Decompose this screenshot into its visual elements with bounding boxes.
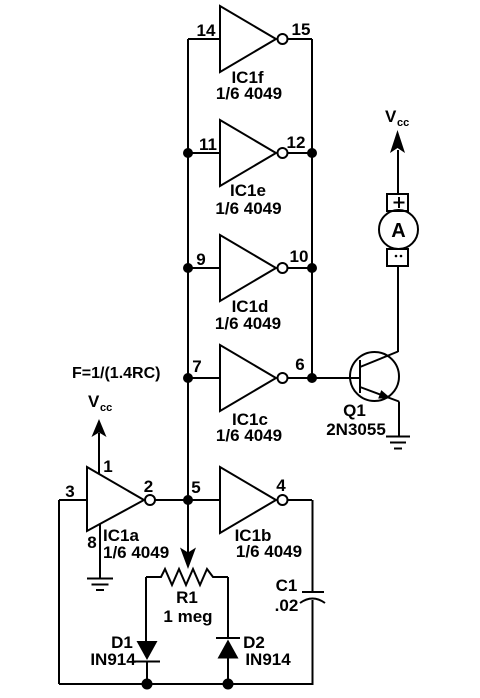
svg-text:2: 2 <box>144 477 153 496</box>
potentiometer R1 wiper arrow <box>180 548 196 570</box>
svg-text:1/6 4049: 1/6 4049 <box>215 199 281 218</box>
transistor Q1 <box>312 266 410 449</box>
ammeter bottom terminal box <box>387 249 408 266</box>
inverter IC1a <box>59 392 188 590</box>
svg-text:3: 3 <box>65 482 74 501</box>
junction: input bus node (y=268) <box>183 263 193 273</box>
junction: output bus node (y=268) <box>307 263 317 273</box>
wire: pin 8 to ground <box>99 524 101 578</box>
ammeter top terminal box <box>387 194 408 211</box>
svg-text:2N3055: 2N3055 <box>326 420 386 439</box>
svg-text:15: 15 <box>292 20 311 39</box>
wire: feedback (bottom rail to IC1a pin 3) <box>58 500 60 684</box>
wire: IC1a input (pin 3) <box>59 499 87 501</box>
Q1 collector <box>360 352 398 368</box>
svg-text:1/6 4049: 1/6 4049 <box>103 543 169 562</box>
wire: IC1c input <box>188 377 220 379</box>
svg-text:R1: R1 <box>176 588 198 607</box>
svg-text:F=1/(1.4RC): F=1/(1.4RC) <box>72 365 160 382</box>
svg-text:8: 8 <box>87 533 96 552</box>
svg-text:1/6 4049: 1/6 4049 <box>216 426 282 445</box>
inverter IC1d triangle <box>220 235 276 301</box>
wire: emitter to ground <box>398 402 400 437</box>
IC1c output bubble <box>278 373 288 383</box>
svg-text:14: 14 <box>197 21 216 40</box>
inverter IC1e <box>188 120 312 218</box>
inverter IC1b triangle <box>220 467 276 533</box>
Q1 base bar <box>359 360 361 393</box>
svg-text:V: V <box>88 392 100 411</box>
IC1d output bubble <box>278 263 288 273</box>
IC1e output bubble <box>278 148 288 158</box>
svg-text:cc: cc <box>100 402 112 414</box>
svg-text:9: 9 <box>196 250 205 269</box>
ammeter body circle <box>379 210 418 249</box>
wire: IC1c output <box>288 377 313 379</box>
Q1 emitter arrow <box>378 390 391 398</box>
svg-text:4: 4 <box>276 476 286 495</box>
svg-text:6: 6 <box>295 355 304 374</box>
resistor R1 <box>146 569 228 626</box>
capacitor C1 <box>275 576 325 615</box>
wire: collector to ammeter <box>397 266 399 352</box>
svg-text:7: 7 <box>192 357 201 376</box>
svg-text:1/6 4049: 1/6 4049 <box>215 314 281 333</box>
svg-text:12: 12 <box>287 133 306 152</box>
inverter IC1c <box>188 345 312 445</box>
+ mark <box>394 202 405 204</box>
svg-text:IC1e: IC1e <box>230 181 266 200</box>
wire: bottom rail <box>59 683 314 685</box>
wire: D2 anode to rail <box>227 658 229 684</box>
wire: IC1f input <box>188 38 220 40</box>
svg-text:V: V <box>385 107 397 126</box>
junction: D1 / bottom rail <box>142 679 153 690</box>
IC1a output bubble <box>145 495 155 505</box>
diode D1 <box>90 633 160 684</box>
diode D2 <box>216 633 291 684</box>
junction: input bus node (y=378) <box>183 373 193 383</box>
wire: IC1e input <box>188 152 220 154</box>
wire: input bus (IC1a output to all gate inputs) <box>187 39 189 553</box>
svg-text:C1: C1 <box>276 576 298 595</box>
svg-text:IN914: IN914 <box>90 650 136 669</box>
wire: D1 cathode to rail <box>146 662 148 684</box>
svg-text:1/6 4049: 1/6 4049 <box>216 84 282 103</box>
svg-text:.02: .02 <box>275 596 299 615</box>
ammeter A <box>379 194 418 266</box>
svg-text:10: 10 <box>290 247 309 266</box>
junction: input bus node (y=153) <box>183 148 193 158</box>
Q1 body circle <box>350 352 399 401</box>
svg-text:1/6 4049: 1/6 4049 <box>236 542 302 561</box>
svg-text:1 meg: 1 meg <box>163 607 212 626</box>
IC1f output bubble <box>278 34 288 44</box>
ground (Q1 emitter) <box>386 436 410 438</box>
wire: R1 right end down to D2 <box>227 577 229 638</box>
wire: IC1a output (pin 2) <box>155 499 188 501</box>
IC1b output bubble <box>278 495 288 505</box>
inverter IC1e triangle <box>220 120 276 186</box>
wire: IC1f output <box>288 38 313 40</box>
wire: Vcc to ammeter <box>397 150 399 194</box>
- mark <box>395 255 398 258</box>
wire: IC1b output down to C1 <box>312 500 314 591</box>
svg-text:11: 11 <box>199 135 217 154</box>
wire: IC1d input <box>188 267 220 269</box>
wire: IC1d output <box>288 267 313 269</box>
Q1 emitter <box>360 387 399 402</box>
svg-text:A: A <box>391 220 405 242</box>
Vcc arrow (supply to motor/meter) <box>390 130 405 153</box>
ground (IC1a pin 8) <box>87 578 113 580</box>
junction: input bus node (y=500) <box>183 495 193 505</box>
svg-text:Q1: Q1 <box>343 401 366 420</box>
junction: output bus node (y=378) <box>307 373 317 383</box>
svg-text:5: 5 <box>191 478 200 497</box>
wire: R1 left end down to D1 <box>145 577 147 641</box>
wire: pin 1 to Vcc <box>98 433 100 474</box>
inverter IC1a triangle <box>87 467 144 531</box>
wire: output bus (gate outputs to Q1 base) <box>311 39 313 378</box>
svg-text:cc: cc <box>397 117 409 129</box>
svg-text:IN914: IN914 <box>245 650 291 669</box>
inverter IC1b <box>188 467 312 561</box>
wire: IC1b input <box>188 499 220 501</box>
Vcc arrow (IC1a pin 1) <box>92 419 107 437</box>
inverter IC1d <box>188 235 312 333</box>
junction: output bus node (y=153) <box>307 148 317 158</box>
svg-text:1: 1 <box>103 457 112 476</box>
junction: D2 / bottom rail <box>223 679 234 690</box>
inverter IC1f <box>188 6 312 103</box>
wire: IC1e output <box>288 152 313 154</box>
inverter IC1f triangle <box>220 6 276 72</box>
inverter IC1c triangle <box>220 345 276 411</box>
wire: C1 to bottom rail <box>312 600 314 684</box>
wire: IC1b output <box>288 499 313 501</box>
wire: Q1 base from output bus <box>312 377 359 379</box>
